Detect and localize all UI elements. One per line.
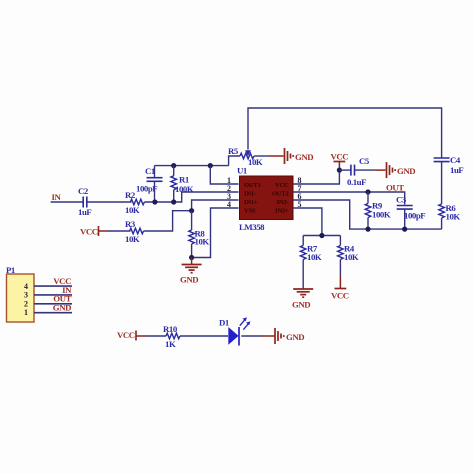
svg-text:10K: 10K: [446, 212, 461, 222]
svg-text:1uF: 1uF: [450, 165, 463, 175]
wire: IN to C2: [51, 201, 83, 203]
capacitor C1 100pF: [136, 166, 163, 202]
wire: C2 to R2: [87, 201, 132, 203]
svg-text:VSS: VSS: [244, 208, 256, 215]
node: R8 bottom / pin4 / gnd: [189, 255, 194, 260]
port IN: [52, 192, 62, 202]
svg-text:IN: IN: [52, 192, 62, 202]
svg-text:4: 4: [227, 200, 231, 209]
resistor R4 10K: [338, 236, 359, 289]
svg-text:LM358: LM358: [239, 222, 265, 232]
capacitor C3 100pF: [396, 195, 425, 230]
capacitor C5 0.1uF: [339, 156, 385, 187]
resistor R10 1K: [163, 324, 180, 349]
svg-text:R1: R1: [179, 175, 189, 185]
op-amp U1 LM358: [237, 166, 293, 233]
node: R9 bottom: [365, 227, 370, 232]
ground GND (bottom LED rail): [275, 328, 304, 344]
wire: top feedback loop from R5 wiper to C4: [248, 108, 442, 158]
wire: bottom rail to pin6: [293, 200, 442, 229]
svg-text:IN2-: IN2-: [277, 199, 289, 206]
wire: R2 to pin2 jog: [144, 192, 238, 202]
wire: pin8 to VCC: [293, 170, 339, 184]
svg-text:R5: R5: [228, 146, 239, 156]
svg-text:OUT1: OUT1: [244, 182, 261, 189]
svg-text:100pF: 100pF: [136, 184, 157, 194]
svg-text:1uF: 1uF: [78, 207, 91, 217]
resistor R6 10K: [439, 203, 461, 229]
svg-text:100K: 100K: [372, 210, 391, 220]
svg-text:VCC: VCC: [275, 182, 289, 189]
resistor R7 10K: [300, 236, 321, 289]
svg-text:GND: GND: [180, 275, 198, 285]
wire: divider bridge: [303, 235, 340, 237]
svg-text:D1: D1: [219, 318, 229, 328]
svg-text:GND: GND: [295, 152, 313, 162]
svg-text:VCC: VCC: [117, 330, 135, 340]
wire: VCC to R10: [136, 335, 145, 337]
svg-text:C3: C3: [396, 195, 407, 205]
node: R1 top junction: [171, 163, 176, 168]
svg-text:GND: GND: [286, 332, 304, 342]
ground GND (right of C5): [387, 162, 416, 178]
port VCC (left, feeding R3): [80, 226, 99, 237]
connector P1: [6, 265, 34, 322]
svg-text:3: 3: [24, 291, 28, 300]
resistor R8 10K: [189, 211, 210, 258]
svg-text:1K: 1K: [165, 339, 176, 349]
svg-text:R10: R10: [163, 324, 178, 334]
svg-text:R3: R3: [125, 219, 136, 229]
svg-text:R2: R2: [125, 190, 136, 200]
resistor R1 100K: [171, 166, 194, 202]
port VCC (bottom LED rail): [117, 330, 136, 341]
LED D1: [219, 317, 250, 345]
node: R9 top: [365, 189, 370, 194]
svg-text:2: 2: [24, 299, 28, 308]
resistor R9 100K: [365, 192, 391, 229]
svg-text:10K: 10K: [195, 237, 210, 247]
svg-text:OUT: OUT: [386, 183, 404, 193]
svg-text:IN2+: IN2+: [275, 208, 289, 215]
svg-text:IN1-: IN1-: [244, 191, 256, 198]
resistor R3 10K: [125, 219, 144, 244]
svg-text:GND: GND: [397, 166, 415, 176]
svg-text:10K: 10K: [307, 252, 322, 262]
node: pin3/R3/R8 junction: [189, 208, 194, 213]
svg-text:GND: GND: [53, 303, 71, 313]
ground GND (below R7): [292, 289, 313, 310]
wire: pin4 to ground node: [192, 208, 239, 258]
wire: P1 pin3 IN: [34, 294, 72, 296]
svg-text:OUT2: OUT2: [272, 191, 289, 198]
svg-text:P1: P1: [6, 265, 15, 275]
svg-text:C2: C2: [78, 186, 89, 196]
svg-text:4: 4: [24, 282, 28, 291]
power VCC (below R4): [331, 289, 349, 301]
svg-text:VCC: VCC: [331, 291, 349, 301]
svg-text:1: 1: [24, 308, 28, 317]
svg-text:0.1uF: 0.1uF: [347, 177, 366, 187]
wire: D1 to GND: [241, 335, 262, 337]
ground GND (right of R5): [285, 148, 314, 164]
wire: P1 pin1 GND: [34, 312, 72, 314]
wire: P1 pin4 VCC: [34, 285, 72, 287]
svg-text:10K: 10K: [344, 252, 359, 262]
wire: R10 to D1: [180, 335, 228, 337]
power VCC (above C5): [331, 152, 349, 162]
wire: VCC to R3: [99, 230, 108, 232]
svg-text:U1: U1: [237, 166, 247, 176]
potentiometer R5: [228, 146, 284, 167]
node: C1 bottom: [152, 199, 157, 204]
wire: feedback net y=165.6: [155, 165, 229, 167]
wire: R3 to pin3 node: [144, 211, 192, 231]
wire: pin5 to divider bridge: [293, 208, 322, 236]
svg-text:100pF: 100pF: [404, 211, 425, 221]
svg-text:10K: 10K: [125, 205, 140, 215]
wire: pin3 from node: [192, 200, 239, 211]
svg-text:IN1+: IN1+: [244, 199, 258, 206]
resistor R2 10K: [125, 190, 144, 215]
svg-text:C4: C4: [450, 155, 461, 165]
svg-text:C5: C5: [359, 156, 370, 166]
svg-text:VCC: VCC: [80, 227, 98, 237]
capacitor C4 1uF: [434, 155, 464, 204]
svg-text:GND: GND: [292, 300, 310, 310]
svg-text:10K: 10K: [248, 157, 263, 167]
wire: pin1 to feedback node: [210, 166, 238, 184]
node: bridge junction: [319, 233, 324, 238]
wire: P1 pin2 OUT: [34, 303, 72, 305]
svg-text:10K: 10K: [125, 234, 140, 244]
ground GND (below R8): [180, 258, 202, 285]
svg-text:VCC: VCC: [331, 152, 349, 162]
node: C3 bottom: [402, 227, 407, 232]
node: R1 bottom: [171, 199, 176, 204]
node: C5 tap: [337, 168, 342, 173]
wire: pin7 OUT net: [293, 192, 405, 205]
node: pin1 branch junction: [208, 163, 213, 168]
svg-text:C1: C1: [145, 166, 155, 176]
capacitor C2 1uF: [78, 186, 91, 217]
